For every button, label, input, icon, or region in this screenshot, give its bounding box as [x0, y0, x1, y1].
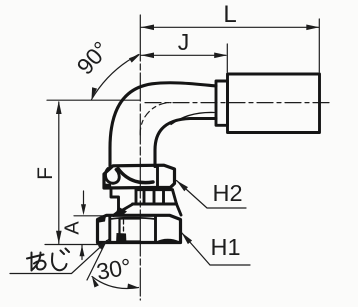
- neji leader arrow: [98, 240, 109, 250]
- reference line top left (tube top level): [47, 99, 140, 101]
- extension line right (socket end): [318, 19, 320, 72]
- dimension line J: [141, 54, 226, 56]
- elbow tube inner edge: [155, 119, 216, 167]
- reference line bottom (nut bottom): [45, 244, 100, 246]
- glyph ji: [52, 254, 66, 271]
- 30 arc left arrow: [92, 277, 99, 288]
- svg-text:J: J: [178, 29, 190, 55]
- label neji (hand-drawn glyphs): [27, 249, 69, 271]
- neck to H1 chamfer left: [114, 204, 134, 215]
- 90 arc bottom arrow: [92, 87, 98, 99]
- svg-text:H2: H2: [213, 180, 243, 206]
- glyph ne: [31, 253, 33, 271]
- H2 leader arrow: [177, 181, 189, 192]
- thread section blob bottom left: [116, 233, 127, 244]
- extension line J right (socket face): [226, 44, 228, 72]
- J left arrow: [141, 53, 154, 59]
- A dimension extension stems: [83, 191, 85, 205]
- svg-text:F: F: [34, 167, 57, 180]
- neck collar top line: [136, 188, 173, 191]
- thread dashed line: [123, 220, 125, 241]
- H1 leader arrow: [182, 233, 193, 245]
- 30 degree arc: [92, 277, 139, 289]
- hose socket shell: [228, 74, 320, 133]
- 90 arc right arrow: [129, 54, 141, 63]
- F bottom arrow: [56, 231, 62, 244]
- H1 top chamfer curve: [111, 218, 156, 219]
- H1 bottom chamfer curve: [157, 240, 179, 243]
- tube inner highlight line: [171, 112, 214, 124]
- H1 nut hex outline: [98, 215, 181, 242]
- thread bore bottom line: [120, 240, 141, 242]
- dimension line F: [58, 102, 60, 244]
- socket collar: [216, 81, 228, 125]
- cutaway step left profile: [111, 188, 119, 216]
- dark corner H1 top left: [98, 216, 107, 223]
- H2 hex right flat line: [156, 166, 159, 187]
- F top arrow: [56, 101, 62, 114]
- H1 hex right flat line: [154, 216, 157, 243]
- part outlines (thick): [98, 74, 320, 243]
- H2 cutaway left hook: [105, 169, 119, 184]
- neck collar flats: [136, 190, 177, 204]
- neck collar bottom line: [133, 203, 177, 206]
- 30 degree ray: [87, 241, 107, 281]
- svg-text:A: A: [62, 221, 84, 235]
- L left arrow: [141, 25, 154, 31]
- thread bore top line: [120, 217, 141, 219]
- neji leader line: [10, 240, 109, 274]
- reference line A top (nut H1 top): [74, 215, 106, 217]
- 90 degree arc annotation: [92, 55, 139, 100]
- horizontal centerline (hose axis): [145, 102, 330, 104]
- svg-text:H1: H1: [211, 234, 241, 260]
- elbow tube outer edge: [110, 83, 216, 167]
- vertical centerline (fitting axis): [139, 15, 141, 300]
- dark H2 bottom left: [104, 184, 112, 190]
- dimension line L: [141, 26, 319, 28]
- A bottom arrow: [80, 245, 85, 256]
- centerline bend arc: [140, 103, 171, 135]
- J right arrow: [214, 53, 227, 59]
- H2 leader line: [177, 181, 247, 209]
- H1 hex left flat line: [108, 217, 111, 243]
- A top arrow: [81, 204, 86, 215]
- H1 leader line: [182, 233, 251, 266]
- neck to H1 chamfer right: [177, 204, 182, 215]
- 30 arc right arrow: [127, 284, 138, 289]
- thread bore left line: [118, 219, 120, 243]
- svg-text:L: L: [223, 1, 236, 28]
- L right arrow: [306, 25, 319, 31]
- dark wedge neck bottom: [116, 207, 127, 217]
- H2 nut hex outline: [104, 165, 175, 188]
- H2 cutaway flare swoosh: [118, 169, 153, 183]
